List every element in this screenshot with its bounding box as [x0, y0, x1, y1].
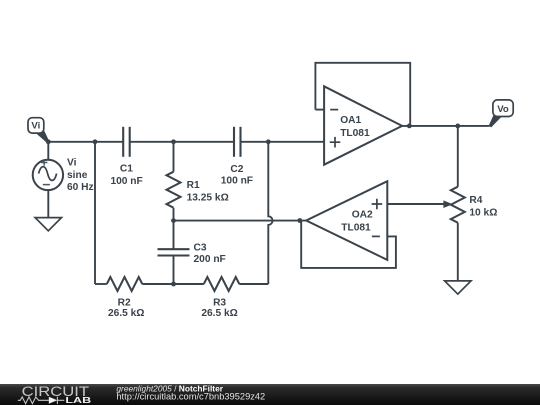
node R2-R3-C3 junction [171, 282, 176, 287]
ground (under V1) [35, 218, 61, 231]
svg-text:100 nF: 100 nF [221, 176, 253, 187]
svg-text:Vo: Vo [497, 104, 509, 115]
node flag Vi [28, 118, 49, 143]
label R3 [201, 297, 238, 319]
svg-text:OA2: OA2 [352, 209, 373, 220]
svg-text:http://circuitlab.com/c7bnb395: http://circuitlab.com/c7bnb39529z42 [116, 392, 265, 402]
node C2-riser junction [266, 139, 271, 144]
label C2 [221, 164, 253, 186]
potentiometer R4 [443, 187, 464, 223]
ground (under R4) [445, 281, 471, 294]
svg-text:sine: sine [67, 170, 88, 181]
op-amp OA1 [324, 86, 402, 164]
svg-text:26.5 kΩ: 26.5 kΩ [201, 308, 238, 319]
svg-text:C3: C3 [194, 243, 207, 254]
svg-text:R1: R1 [187, 180, 200, 191]
svg-text:C1: C1 [120, 163, 133, 174]
resistor R2 [107, 277, 143, 291]
capacitor C3 [158, 249, 190, 255]
wire [315, 109, 324, 111]
resistor R1 [167, 172, 181, 208]
capacitor C2 [234, 127, 241, 157]
node Vi/source junction [46, 139, 51, 144]
label C1 [110, 163, 142, 186]
svg-text:LAB: LAB [65, 395, 91, 405]
node left branch junction [93, 139, 98, 144]
label OA2 [341, 209, 373, 233]
resistor R3 [204, 277, 240, 291]
svg-text:13.25 kΩ: 13.25 kΩ [187, 192, 229, 203]
svg-text:R3: R3 [213, 297, 226, 308]
svg-text:100 nF: 100 nF [110, 176, 142, 187]
wire [315, 63, 410, 126]
svg-text:R2: R2 [118, 297, 131, 308]
label OA1 [340, 115, 370, 139]
svg-text:10 kΩ: 10 kΩ [469, 208, 497, 219]
node OA1 output junction [407, 124, 412, 129]
node C1-C2-R1 junction [171, 139, 176, 144]
svg-text:TL081: TL081 [340, 128, 370, 139]
label R1 [187, 180, 229, 203]
wire [142, 283, 204, 285]
svg-text:26.5 kΩ: 26.5 kΩ [108, 308, 145, 319]
wire [48, 141, 123, 143]
wire [130, 141, 234, 143]
wire [402, 125, 489, 127]
wire [239, 283, 268, 285]
wire [268, 142, 272, 284]
svg-text:TL081: TL081 [341, 222, 371, 233]
wire [94, 142, 96, 284]
wire [47, 142, 49, 161]
label V1 value [67, 158, 94, 193]
wire [241, 141, 325, 143]
wire [387, 203, 444, 205]
svg-text:C2: C2 [230, 164, 243, 175]
node R1-C3-bootstrap junction [171, 218, 176, 223]
wire [301, 221, 396, 268]
wire [95, 283, 107, 285]
label R2 [108, 297, 145, 319]
node flag Vo [489, 100, 514, 128]
svg-text:Vi: Vi [31, 121, 40, 132]
node Vo-R4 junction [455, 124, 460, 129]
wire [174, 220, 307, 222]
voltage source V1 Vi sine [33, 159, 63, 190]
node OA2 output junction [297, 218, 302, 223]
wire [457, 126, 459, 281]
capacitor C1 [123, 127, 130, 157]
svg-text:60 Hz: 60 Hz [67, 182, 94, 193]
wire [173, 142, 175, 221]
wire [173, 221, 175, 284]
svg-text:200 nF: 200 nF [194, 254, 226, 265]
logo schematic line (resistor + diode) [18, 397, 65, 404]
svg-text:Vi: Vi [67, 158, 77, 169]
label C3 [194, 243, 226, 266]
op-amp OA2 [306, 181, 387, 260]
svg-text:R4: R4 [469, 195, 482, 206]
footer bar [0, 384, 540, 405]
wire [47, 190, 49, 217]
label R4 [469, 195, 497, 219]
svg-text:OA1: OA1 [340, 115, 361, 126]
